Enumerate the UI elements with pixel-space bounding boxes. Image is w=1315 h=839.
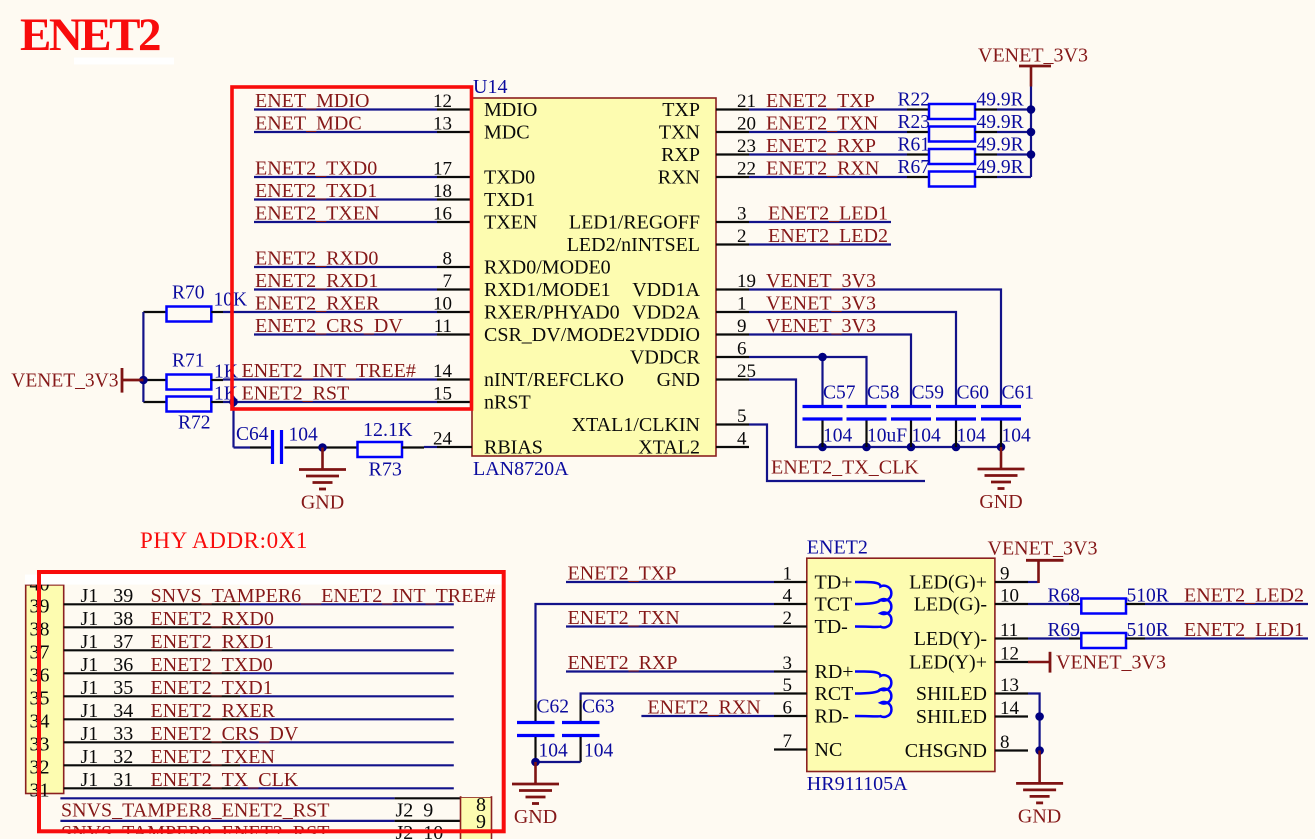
svg-text:13: 13 — [1000, 675, 1019, 696]
svg-text:CHSGND: CHSGND — [905, 740, 987, 762]
junction dots on gnd rail — [818, 443, 827, 452]
svg-text:104: 104 — [912, 426, 942, 447]
pin 7 RXD1/MODE1 — [437, 288, 472, 290]
svg-text:ENET2_TX_CLK: ENET2_TX_CLK — [771, 457, 919, 479]
pin 18 TXD1 — [437, 198, 472, 200]
svg-text:J1 38: J1 38 — [81, 608, 134, 630]
pin 13 SHILED of HR911105A — [995, 692, 1028, 694]
pin 35 of J1 — [64, 695, 240, 697]
svg-text:LED(G)+: LED(G)+ — [909, 571, 987, 593]
svg-text:R67: R67 — [898, 157, 931, 178]
wire net ENET2_LED1 — [1145, 637, 1308, 639]
svg-text:J1 37: J1 37 — [81, 631, 134, 653]
svg-text:ENET2_TXEN: ENET2_TXEN — [151, 746, 275, 768]
connector J1 body — [26, 585, 64, 794]
svg-text:LAN8720A: LAN8720A — [473, 458, 569, 480]
svg-text:ENET2_TXEN: ENET2_TXEN — [255, 203, 379, 225]
capacitor C64 — [234, 446, 251, 448]
wire net ENET2_RXD0 — [254, 266, 437, 268]
pin 6 U14 right — [716, 356, 749, 358]
svg-text:VENET_3V3: VENET_3V3 — [766, 315, 876, 337]
svg-text:GND: GND — [514, 806, 557, 828]
resistor R70 — [143, 311, 166, 313]
svg-text:ENET2_RXD0: ENET2_RXD0 — [255, 248, 378, 270]
svg-text:ENET2_TX_CLK: ENET2_TX_CLK — [151, 769, 299, 791]
svg-text:4: 4 — [737, 429, 747, 450]
pin 8 RXD0/MODE0 — [437, 266, 472, 268]
pin 8 CHSGND of HR911105A — [995, 749, 1028, 751]
transformer TX coil — [855, 582, 891, 627]
svg-text:LED(Y)+: LED(Y)+ — [909, 651, 987, 673]
svg-text:8: 8 — [443, 249, 453, 270]
svg-text:TXN: TXN — [659, 121, 700, 143]
pin 2 TD- of HR911105A — [774, 625, 807, 627]
svg-text:C64: C64 — [236, 424, 269, 445]
svg-text:18: 18 — [433, 181, 452, 202]
svg-text:6: 6 — [783, 698, 793, 719]
power port VENET_3V3 above pin 9 — [1028, 581, 1039, 583]
wire net VENET_3V3 — [749, 312, 956, 407]
svg-text:17: 17 — [433, 159, 452, 180]
svg-text:C62: C62 — [537, 697, 570, 718]
wire SHILED CHSGND to ground — [1028, 694, 1040, 751]
resistor R22 — [907, 108, 929, 110]
svg-text:TXEN: TXEN — [484, 211, 537, 233]
svg-text:ENET2_INT_TREE#: ENET2_INT_TREE# — [242, 360, 416, 382]
transformer jack ENET2 HR911105A body — [807, 558, 995, 771]
svg-text:ENET2_TXD0: ENET2_TXD0 — [255, 158, 377, 180]
svg-text:ENET2_RXP: ENET2_RXP — [568, 652, 678, 674]
transformer RX coil — [855, 672, 891, 717]
capacitor C57 — [803, 405, 843, 408]
svg-text:CSR_DV/MODE2: CSR_DV/MODE2 — [484, 324, 635, 346]
svg-text:NC: NC — [815, 739, 843, 761]
transformer RX center tap — [855, 689, 881, 693]
svg-text:R61: R61 — [898, 135, 931, 156]
wire to 3V3 bus — [997, 131, 1031, 133]
red highlight box around U14 input nets — [232, 87, 472, 409]
svg-text:MDIO: MDIO — [484, 99, 537, 121]
svg-text:GND: GND — [979, 491, 1022, 513]
pin 20 U14 right — [716, 131, 749, 133]
junction dot pin 14 — [1035, 712, 1044, 721]
svg-text:10uF: 10uF — [867, 426, 907, 447]
svg-text:R70: R70 — [172, 283, 205, 304]
wire net VENET_3V3 — [749, 335, 911, 407]
svg-text:9: 9 — [1000, 564, 1010, 585]
svg-text:ENET2_TXP: ENET2_TXP — [568, 563, 677, 585]
wire VDDCR to C57 C58 — [749, 357, 867, 407]
pin 34 of J1 — [64, 718, 240, 720]
power port VENET_3V3 top right — [1030, 66, 1033, 87]
svg-text:ENET2_TXN: ENET2_TXN — [766, 113, 878, 135]
capacitor C60 — [936, 405, 976, 408]
svg-text:SNVS_TAMPER6__ENET2_INT_TREE#: SNVS_TAMPER6__ENET2_INT_TREE# — [151, 585, 496, 607]
pin 5 RCT of HR911105A — [774, 692, 807, 694]
svg-text:ENET2_RXN: ENET2_RXN — [766, 158, 879, 180]
svg-text:9: 9 — [737, 316, 747, 337]
pin 22 U14 right — [716, 176, 749, 178]
pin 9 LED(G)+ of HR911105A — [995, 581, 1028, 583]
svg-text:ENET2_RST: ENET2_RST — [242, 383, 350, 405]
wire net ENET2_TXD0 — [254, 176, 437, 178]
svg-text:3: 3 — [737, 204, 747, 225]
svg-text:ENET_MDC: ENET_MDC — [255, 113, 362, 135]
svg-text:15: 15 — [433, 384, 452, 405]
pin 11 CSR_DV/MODE2 — [437, 333, 472, 335]
wire net ENET2_TX_CLK — [749, 425, 925, 482]
svg-text:R73: R73 — [369, 459, 402, 481]
wire C62 C63 bottoms to ground — [534, 737, 536, 762]
node 3V3 bus vertical — [1030, 87, 1032, 178]
svg-text:2: 2 — [737, 226, 747, 247]
capacitor C58 — [847, 405, 887, 408]
wire C64 to nRST net — [232, 402, 234, 448]
svg-text:1: 1 — [737, 294, 747, 315]
svg-text:XTAL2: XTAL2 — [638, 436, 700, 458]
resistor R67 — [907, 176, 929, 178]
svg-text:3: 3 — [783, 653, 793, 674]
pin 33 of J1 — [64, 741, 240, 743]
svg-text:ENET2_RXP: ENET2_RXP — [766, 135, 876, 157]
pin 21 U14 right — [716, 108, 749, 110]
svg-text:LED(Y)-: LED(Y)- — [914, 628, 987, 650]
svg-text:J2 9: J2 9 — [396, 799, 434, 821]
svg-text:ENET2_RXD1: ENET2_RXD1 — [255, 270, 378, 292]
pin 12 MDIO — [437, 108, 472, 110]
wire net ENET2_TXN — [749, 131, 907, 133]
svg-text:ENET2_CRS_DV: ENET2_CRS_DV — [151, 723, 299, 745]
svg-text:ENET_MDIO: ENET_MDIO — [255, 90, 369, 112]
pin 38 of J1 — [64, 626, 240, 628]
svg-text:7: 7 — [443, 271, 453, 292]
svg-text:5: 5 — [737, 406, 747, 427]
svg-text:RCT: RCT — [815, 683, 854, 705]
svg-text:RXD1/MODE1: RXD1/MODE1 — [484, 279, 611, 301]
svg-text:104: 104 — [539, 741, 569, 762]
svg-text:14: 14 — [433, 361, 453, 382]
svg-text:XTAL1/CLKIN: XTAL1/CLKIN — [572, 414, 700, 436]
svg-text:ENET2: ENET2 — [20, 9, 160, 61]
pin 10 RXER/PHYAD0 — [437, 311, 472, 313]
pin 36 of J1 — [64, 672, 240, 674]
wire net ENET2_LED2 — [1145, 603, 1308, 605]
junction dot at GND stem — [318, 443, 327, 452]
pin 1 TD+ of HR911105A — [774, 581, 807, 583]
pin 13 MDC — [437, 131, 472, 133]
ground symbol below C62 — [534, 762, 537, 784]
transformer TX center tap — [855, 600, 881, 604]
pin 3 U14 right — [716, 221, 749, 223]
capacitor C59 — [891, 405, 931, 408]
wire net ENET_MDIO — [254, 108, 437, 110]
pin 9 U14 right — [716, 333, 749, 335]
svg-text:LED1/REGOFF: LED1/REGOFF — [569, 211, 700, 233]
wire bare net row pin 8 of J2 — [60, 797, 394, 799]
op-amp U14 body — [472, 98, 716, 456]
ground symbol below HR911105A — [1038, 751, 1041, 784]
svg-text:SHILED: SHILED — [916, 683, 987, 705]
svg-text:VDDCR: VDDCR — [630, 346, 701, 368]
junction dot at C62 ground — [531, 758, 540, 767]
svg-text:TXD1: TXD1 — [484, 189, 535, 211]
capacitor C62 — [517, 721, 555, 724]
pin 37 of J1 — [64, 649, 240, 651]
svg-text:TD-: TD- — [815, 616, 848, 638]
svg-text:104: 104 — [1002, 426, 1032, 447]
wire RCT to C63 — [581, 694, 774, 701]
svg-text:13: 13 — [433, 114, 452, 135]
svg-text:J1 32: J1 32 — [81, 746, 134, 768]
svg-text:5: 5 — [783, 675, 793, 696]
svg-text:nINT/REFCLKO: nINT/REFCLKO — [484, 369, 624, 391]
svg-text:R68: R68 — [1048, 586, 1081, 607]
svg-text:ENET2_RXN: ENET2_RXN — [647, 697, 760, 719]
wire net ENET_MDC — [254, 131, 437, 133]
resistor R71 — [143, 379, 166, 381]
white band artifact — [25, 575, 503, 585]
pin 2 U14 right — [716, 243, 749, 245]
svg-text:ENET2_RXD1: ENET2_RXD1 — [151, 631, 274, 653]
resistor R73 — [358, 442, 403, 457]
pin 23 U14 right — [716, 153, 749, 155]
svg-text:MDC: MDC — [484, 121, 530, 143]
svg-text:104: 104 — [584, 741, 614, 762]
wire C64 to R73 — [285, 446, 358, 448]
wire net ENET2_CRS_DV — [254, 333, 437, 335]
svg-text:U14: U14 — [473, 76, 507, 98]
svg-text:HR911105A: HR911105A — [807, 773, 908, 795]
pin 24 RBIAS — [424, 446, 437, 448]
svg-text:49.9R: 49.9R — [977, 157, 1024, 178]
svg-text:ENET2_LED1: ENET2_LED1 — [1184, 619, 1304, 641]
wire net ENET2_RXN — [749, 176, 907, 178]
svg-text:TXD0: TXD0 — [484, 166, 535, 188]
svg-text:J1 31: J1 31 — [81, 769, 134, 791]
wire net ENET2_LED1 — [749, 221, 891, 223]
junction at C57 top — [818, 353, 827, 362]
pin 7 NC of HR911105A — [774, 748, 807, 750]
svg-text:11: 11 — [434, 316, 452, 337]
svg-text:1K: 1K — [214, 362, 238, 383]
wire net SNVS_TAMPER8_ENET2_RST pin 9 of J2 — [60, 820, 394, 822]
pin 5 U14 right — [716, 423, 749, 425]
pin 16 TXEN — [437, 221, 472, 223]
svg-text:12.1K: 12.1K — [363, 419, 413, 441]
power port VENET_3V3 left — [121, 368, 124, 393]
wire net VENET_3V3 — [749, 290, 1001, 407]
svg-text:RD-: RD- — [815, 705, 849, 727]
pin 4 U14 right — [716, 446, 749, 448]
svg-text:SNVS_TAMPER8_ENET2_RST: SNVS_TAMPER8_ENET2_RST — [61, 799, 329, 821]
svg-text:10: 10 — [1000, 586, 1019, 607]
junction dot at VENET_3V3 feed — [139, 376, 148, 385]
svg-text:GND: GND — [657, 369, 700, 391]
svg-text:C59: C59 — [912, 383, 945, 404]
wire net ENET2_RXP — [566, 670, 774, 672]
wire net ENET2_RXD1 — [254, 288, 437, 290]
svg-text:PHY ADDR:0X1: PHY ADDR:0X1 — [140, 528, 308, 553]
svg-text:VDDIO: VDDIO — [636, 324, 700, 346]
svg-text:J1 33: J1 33 — [81, 723, 134, 745]
red highlight box around J1 nets — [39, 572, 504, 831]
pin 14 nINT/REFCLKO — [437, 378, 472, 380]
svg-text:ENET2_RXER: ENET2_RXER — [151, 700, 276, 722]
svg-text:RXN: RXN — [658, 166, 700, 188]
capacitor C61 — [981, 405, 1021, 408]
svg-text:C63: C63 — [582, 697, 615, 718]
wire net ENET2_TXN — [566, 625, 774, 627]
svg-text:ENET2_TXP: ENET2_TXP — [766, 90, 875, 112]
svg-text:VENET_3V3: VENET_3V3 — [988, 538, 1098, 560]
svg-text:104: 104 — [957, 426, 987, 447]
junction dot on nRST wire — [229, 398, 238, 407]
svg-text:J1 39: J1 39 — [81, 585, 134, 607]
svg-text:7: 7 — [783, 731, 793, 752]
svg-text:RXP: RXP — [661, 144, 700, 166]
pin 15 nRST — [437, 401, 472, 403]
svg-text:R23: R23 — [898, 112, 931, 133]
ground symbol right of caps — [1000, 447, 1003, 469]
svg-text:11: 11 — [1000, 620, 1018, 641]
resistor R72 — [143, 401, 166, 403]
svg-text:ENET2_LED1: ENET2_LED1 — [768, 203, 888, 225]
svg-text:ENET2_LED2: ENET2_LED2 — [1184, 585, 1304, 607]
svg-text:J1 34: J1 34 — [81, 700, 134, 722]
wire to 3V3 bus — [997, 108, 1031, 110]
pin 11 LED(Y)- of HR911105A — [995, 637, 1028, 639]
svg-text:R69: R69 — [1048, 620, 1081, 641]
svg-text:C61: C61 — [1002, 383, 1035, 404]
svg-text:ENET2_TXD1: ENET2_TXD1 — [151, 677, 273, 699]
svg-text:VENET_3V3: VENET_3V3 — [11, 371, 118, 392]
ground symbol below C64 — [321, 448, 324, 470]
svg-text:ENET2_RXD0: ENET2_RXD0 — [151, 608, 274, 630]
svg-text:VENET_3V3: VENET_3V3 — [766, 293, 876, 315]
connector J2 body — [461, 797, 492, 839]
wire net ENET2_TXP — [566, 581, 774, 583]
svg-text:ENET2_TXD1: ENET2_TXD1 — [255, 180, 377, 202]
wire net ENET2_TXEN — [254, 221, 437, 223]
svg-text:J1 35: J1 35 — [81, 677, 134, 699]
pin 3 RD+ of HR911105A — [774, 670, 807, 672]
pin 1 U14 right — [716, 311, 749, 313]
svg-text:4: 4 — [783, 586, 793, 607]
wire to 3V3 bus — [997, 176, 1031, 178]
svg-text:ENET2_TXD0: ENET2_TXD0 — [151, 654, 273, 676]
svg-text:VENET_3V3: VENET_3V3 — [1056, 652, 1166, 674]
resistor R69 — [1028, 637, 1069, 639]
wire net ENET2_RST — [223, 401, 437, 403]
wire net ENET2_TXP — [749, 108, 907, 110]
svg-text:1: 1 — [783, 564, 793, 585]
pin 14 SHILED of HR911105A — [995, 715, 1028, 717]
svg-text:C58: C58 — [867, 383, 900, 404]
svg-text:SHILED: SHILED — [916, 706, 987, 728]
junction dots on 3V3 bus — [1027, 105, 1036, 114]
svg-text:C60: C60 — [957, 383, 990, 404]
junction dot pin 8 — [1035, 746, 1044, 755]
svg-text:RXER/PHYAD0: RXER/PHYAD0 — [484, 301, 620, 323]
pin 31 of J1 — [64, 787, 240, 789]
wire net ENET2_RXER — [223, 311, 437, 313]
pin 25 U14 right — [716, 378, 749, 380]
svg-text:14: 14 — [1000, 698, 1020, 719]
svg-text:GND: GND — [1018, 805, 1061, 827]
svg-text:TD+: TD+ — [815, 571, 853, 593]
wire GND pin 25 to cap rail — [749, 380, 1001, 448]
wire TCT to C62 — [536, 604, 775, 700]
svg-text:49.9R: 49.9R — [977, 90, 1024, 111]
svg-text:ENET2_LED2: ENET2_LED2 — [768, 225, 888, 247]
svg-text:2: 2 — [783, 608, 793, 629]
svg-text:LED(G)-: LED(G)- — [914, 593, 987, 615]
pin 19 U14 right — [716, 288, 749, 290]
wire net ENET2_TXD1 — [254, 198, 437, 200]
capacitor C63 — [562, 721, 600, 724]
wire net ENET2_INT_TREE# — [223, 378, 437, 380]
svg-text:R72: R72 — [178, 413, 211, 434]
svg-text:VENET_3V3: VENET_3V3 — [978, 45, 1088, 67]
pin 12 LED(Y)+ of HR911105A — [995, 661, 1028, 663]
wire net ENET2_RXN — [641, 715, 774, 717]
svg-text:ENET2_RXER: ENET2_RXER — [255, 293, 380, 315]
svg-text:ENET2_CRS_DV: ENET2_CRS_DV — [255, 315, 403, 337]
svg-text:10: 10 — [433, 294, 452, 315]
resistor R68 — [1028, 603, 1069, 605]
wire vertical joining R70 R71 R72 — [142, 312, 144, 402]
svg-text:J1 36: J1 36 — [81, 654, 134, 676]
svg-text:TXP: TXP — [662, 99, 700, 121]
svg-text:104: 104 — [289, 425, 319, 446]
svg-text:VENET_3V3: VENET_3V3 — [766, 270, 876, 292]
svg-text:49.9R: 49.9R — [977, 135, 1024, 156]
svg-text:ENET2: ENET2 — [807, 537, 868, 559]
svg-text:16: 16 — [433, 204, 452, 225]
svg-text:ENET2_TXN: ENET2_TXN — [568, 607, 680, 629]
svg-text:12: 12 — [433, 91, 452, 112]
svg-text:RXD0/MODE0: RXD0/MODE0 — [484, 256, 611, 278]
svg-text:R71: R71 — [172, 351, 205, 372]
svg-text:RD+: RD+ — [815, 661, 854, 683]
svg-text:RBIAS: RBIAS — [484, 436, 543, 458]
svg-text:VDD1A: VDD1A — [632, 279, 700, 301]
svg-text:24: 24 — [433, 429, 453, 450]
svg-text:49.9R: 49.9R — [977, 112, 1024, 133]
pin 39 of J1 — [64, 603, 240, 605]
resistor R23 — [907, 131, 929, 133]
pin 10 LED(G)- of HR911105A — [995, 603, 1028, 605]
wire to 3V3 bus — [997, 153, 1031, 155]
svg-text:R22: R22 — [898, 90, 931, 111]
svg-text:12: 12 — [1000, 644, 1019, 665]
svg-text:C57: C57 — [823, 383, 856, 404]
svg-text:nRST: nRST — [484, 391, 531, 413]
wire net ENET2_RXP — [749, 153, 907, 155]
pin 4 TCT of HR911105A — [774, 603, 807, 605]
pin 6 RD- of HR911105A — [774, 715, 807, 717]
svg-text:TCT: TCT — [815, 593, 853, 615]
wire net ENET2_LED2 — [749, 243, 891, 245]
cap bottom stubs — [821, 419, 823, 447]
resistor R61 — [907, 153, 929, 155]
power port VENET_3V3 at pin 12 — [1028, 661, 1050, 663]
svg-text:VDD2A: VDD2A — [632, 301, 700, 323]
svg-text:6: 6 — [737, 339, 747, 360]
svg-text:8: 8 — [1000, 732, 1010, 753]
svg-text:104: 104 — [823, 426, 853, 447]
pin 32 of J1 — [64, 764, 240, 766]
